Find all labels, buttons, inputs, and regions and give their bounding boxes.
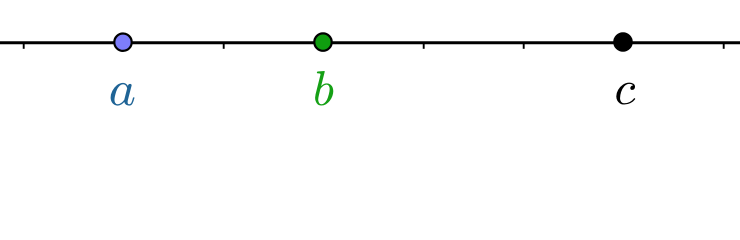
tick 6	[523, 43, 525, 49]
tick 5	[423, 43, 425, 49]
label a	[111, 83, 135, 106]
label c	[616, 83, 635, 105]
tick 3	[223, 43, 225, 49]
number line	[0, 41, 740, 44]
point b	[314, 33, 331, 50]
label b	[315, 71, 333, 106]
tick 1	[23, 43, 25, 49]
tick 8	[723, 43, 725, 49]
point c	[614, 33, 631, 50]
tick 4	[323, 43, 325, 49]
point a	[114, 34, 131, 51]
tick 7	[623, 43, 625, 49]
tick 2	[123, 43, 125, 49]
